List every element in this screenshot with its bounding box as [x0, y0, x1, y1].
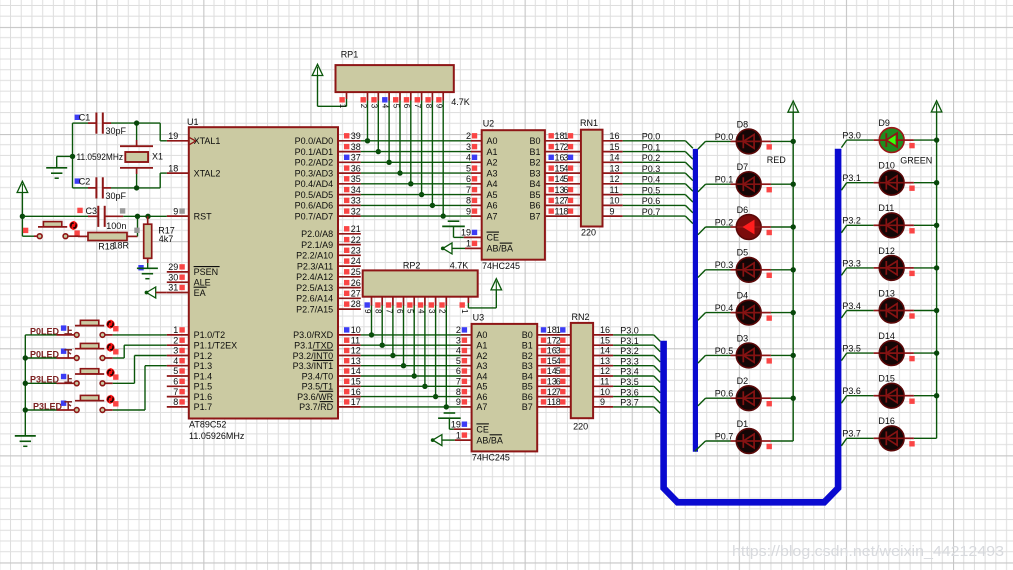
- RP2 pin 5 wire to P3.4: [406, 297, 417, 379]
- LED D15 (green off): [879, 383, 904, 408]
- LED D5 designator label: [737, 248, 749, 258]
- svg-text:1: 1: [460, 309, 469, 314]
- svg-text:AT89C52: AT89C52: [189, 420, 226, 430]
- svg-text:12: 12: [610, 174, 620, 184]
- U2 right pin stubs/numbers to resistor network: [545, 131, 581, 216]
- svg-text:8: 8: [374, 309, 383, 314]
- svg-text:P0.0: P0.0: [715, 132, 734, 142]
- svg-text:P0.6/AD6: P0.6/AD6: [295, 201, 334, 211]
- U3 left pin numbers and squares: [451, 325, 467, 440]
- svg-text:P0.0/AD0: P0.0/AD0: [295, 136, 334, 146]
- net label P3.4 (LED side): [842, 301, 861, 311]
- svg-text:8: 8: [173, 397, 178, 407]
- svg-text:P1.2: P1.2: [194, 351, 213, 361]
- svg-text:A4: A4: [476, 371, 487, 381]
- svg-text:11: 11: [351, 335, 360, 345]
- svg-text:6: 6: [563, 185, 568, 195]
- svg-text:4.7K: 4.7K: [451, 97, 470, 107]
- wire P0.1: U1 pin 38 to U2 pin 3: [361, 151, 482, 153]
- svg-text:38: 38: [351, 142, 361, 152]
- svg-text:5: 5: [391, 104, 400, 109]
- svg-text:9: 9: [600, 397, 605, 407]
- wire net P3.4: RN2 pin 12 to bus: [593, 366, 660, 382]
- LED D6 (lit red): [736, 215, 761, 240]
- X1 labels: [77, 151, 164, 162]
- wire P3.1: U1 pin 11 to U3 pin 3: [361, 344, 472, 346]
- svg-text:13: 13: [610, 163, 620, 173]
- svg-text:23: 23: [351, 246, 361, 256]
- svg-text:P3.0/RXD: P3.0/RXD: [293, 330, 334, 340]
- svg-text:6: 6: [173, 377, 178, 387]
- LED D4 designator label: [737, 291, 749, 301]
- svg-text:12: 12: [351, 346, 361, 356]
- wire P0.6 bus to LED D2: [698, 398, 737, 406]
- LED D12 (green off): [879, 256, 904, 281]
- LED D16 (green off): [879, 426, 904, 451]
- svg-text:6: 6: [395, 309, 404, 314]
- svg-text:P3.0: P3.0: [842, 131, 861, 141]
- wire P3.2 bus to LED D11: [841, 225, 879, 233]
- U1 left pin name labels: [194, 136, 238, 412]
- RP1 pin 7 wire to P0.5: [413, 92, 424, 197]
- svg-text:EA: EA: [194, 288, 206, 298]
- svg-text:A0: A0: [487, 136, 498, 146]
- wire button1 to P1.0: [106, 334, 167, 336]
- wire XTAL1 net: [73, 120, 167, 140]
- RP2 pin 4 wire to P3.5: [416, 297, 427, 389]
- LED D14 designator label: [878, 331, 895, 341]
- wire VCC to RST node and reset button: [20, 193, 37, 237]
- svg-text:U1: U1: [187, 117, 199, 127]
- svg-text:9: 9: [435, 104, 444, 109]
- svg-text:X1: X1: [152, 151, 163, 161]
- svg-text:P1.5: P1.5: [194, 382, 213, 392]
- svg-text:12: 12: [600, 366, 610, 376]
- LED D11 designator label: [878, 203, 894, 213]
- LED D15 designator label: [878, 374, 895, 384]
- svg-text:19: 19: [451, 419, 461, 429]
- wire LED D12 cathode to common: [904, 268, 937, 276]
- LED D9 (lit green): [879, 128, 904, 153]
- svg-text:16: 16: [351, 387, 361, 397]
- svg-text:D6: D6: [737, 205, 749, 215]
- svg-text:5: 5: [563, 174, 568, 184]
- input arrow at U3 AB/BA pin: [431, 435, 472, 446]
- wire P3.3: U1 pin 13 to U3 pin 5: [361, 365, 472, 367]
- svg-text:6: 6: [402, 104, 411, 109]
- svg-text:P0.5: P0.5: [715, 346, 734, 356]
- wire P3.3 bus to LED D12: [841, 268, 879, 276]
- svg-text:19: 19: [461, 228, 471, 238]
- svg-text:A5: A5: [476, 382, 487, 392]
- svg-text:3: 3: [427, 309, 436, 314]
- svg-text:P3.1: P3.1: [620, 336, 639, 346]
- svg-text:14: 14: [351, 366, 361, 376]
- svg-text:4: 4: [173, 356, 178, 366]
- U2 value label 74HC245: [482, 261, 520, 271]
- power arrow VCC (reset circuit): [17, 181, 28, 192]
- U1 left pin stubs: [167, 141, 189, 407]
- svg-text:A5: A5: [487, 190, 498, 200]
- svg-text:8: 8: [456, 387, 461, 397]
- svg-text:P3.4: P3.4: [620, 367, 639, 377]
- net label P0.1 (LED side): [715, 175, 734, 185]
- svg-text:B7: B7: [529, 211, 540, 221]
- RP2 pin 6 wire to P3.3: [395, 297, 406, 369]
- svg-text:37: 37: [351, 153, 361, 163]
- svg-text:P1.1/T2EX: P1.1/T2EX: [194, 341, 238, 351]
- svg-text:P0.4: P0.4: [715, 303, 734, 313]
- wire reset button to R18: [69, 235, 80, 237]
- svg-text:9: 9: [610, 206, 615, 216]
- svg-text:U3: U3: [473, 312, 485, 322]
- wire LED D1 cathode to common: [761, 441, 793, 449]
- svg-text:P0.2/AD2: P0.2/AD2: [295, 158, 334, 168]
- LED D2 (red off): [736, 386, 761, 411]
- svg-text:D7: D7: [737, 162, 749, 172]
- wire LED D6 cathode to common: [761, 227, 793, 235]
- svg-text:RST: RST: [194, 211, 213, 221]
- RP1 pin 9 wire to P0.7: [435, 92, 446, 219]
- svg-text:30pF: 30pF: [106, 191, 127, 201]
- wire P0.5 bus to LED D3: [698, 355, 737, 363]
- wire LED D3 cathode to common: [761, 355, 793, 363]
- U1 right pin stubs P0/P2/P3: [338, 141, 361, 407]
- svg-text:P2.4/A12: P2.4/A12: [296, 272, 333, 282]
- crystal X1: [120, 140, 153, 174]
- svg-text:U2: U2: [483, 119, 495, 129]
- LED D13 designator label: [878, 288, 895, 298]
- svg-text:P2.7/A15: P2.7/A15: [296, 304, 333, 314]
- wire LED D2 cathode to common: [761, 398, 793, 406]
- LED D14 (green off): [879, 341, 904, 366]
- push button P0LED下: [74, 343, 118, 361]
- svg-text:3: 3: [466, 142, 471, 152]
- C3 labels: [77, 206, 126, 231]
- svg-text:18: 18: [168, 163, 178, 173]
- svg-text:A3: A3: [487, 168, 498, 178]
- svg-text:P3.2: P3.2: [842, 216, 861, 226]
- C2 labels: [75, 176, 127, 201]
- svg-text:A0: A0: [476, 330, 487, 340]
- svg-text:P0.1: P0.1: [642, 142, 661, 152]
- svg-text:39: 39: [351, 131, 361, 141]
- svg-text:A2: A2: [476, 351, 487, 361]
- svg-text:2: 2: [556, 335, 561, 345]
- wire net P3.3: RN2 pin 13 to bus: [593, 356, 660, 372]
- LED D7 (red off): [736, 172, 761, 197]
- wire P3.6: U1 pin 16 to U3 pin 8: [361, 396, 472, 398]
- svg-text:D16: D16: [878, 416, 895, 426]
- svg-text:D1: D1: [737, 419, 749, 429]
- U3 pin name labels: [476, 330, 532, 445]
- svg-text:15: 15: [600, 335, 610, 345]
- svg-text:P0.3/AD3: P0.3/AD3: [295, 168, 334, 178]
- svg-text:B0: B0: [522, 330, 533, 340]
- svg-text:P3.1/TXD: P3.1/TXD: [294, 341, 334, 351]
- LED D3 (red off): [736, 343, 761, 368]
- svg-text:P0.6: P0.6: [642, 196, 661, 206]
- RP1 pin 8 wire to P0.6: [424, 92, 435, 208]
- wire net P3.7: RN2 pin 9 to bus: [593, 397, 660, 413]
- buffer U2 74HC245 body: [482, 130, 545, 260]
- svg-text:B2: B2: [529, 158, 540, 168]
- svg-text:A6: A6: [487, 201, 498, 211]
- net label P0.4 (LED side): [715, 303, 734, 313]
- svg-text:XTAL1: XTAL1: [194, 136, 221, 146]
- LED D4 (red off): [736, 300, 761, 325]
- svg-text:B6: B6: [522, 392, 533, 402]
- svg-text:A4: A4: [487, 179, 498, 189]
- wire XTAL2 net: [73, 173, 167, 190]
- svg-text:13: 13: [351, 356, 361, 366]
- svg-text:XTAL2: XTAL2: [194, 168, 221, 178]
- svg-text:P3.6: P3.6: [620, 387, 639, 397]
- svg-text:P3.0: P3.0: [620, 326, 639, 336]
- svg-text:P1.7: P1.7: [194, 402, 213, 412]
- svg-text:P0.7: P0.7: [642, 207, 661, 217]
- svg-text:B6: B6: [529, 201, 540, 211]
- svg-text:P2.3/A11: P2.3/A11: [297, 261, 333, 271]
- wire net P3.1: RN2 pin 15 to bus: [593, 335, 660, 351]
- RP1 pin 1 to VCC: [318, 76, 347, 109]
- resistor R17 4k7: [144, 216, 152, 263]
- svg-text:P0.1/AD1: P0.1/AD1: [295, 147, 334, 157]
- wire LED D8 cathode to common: [761, 141, 793, 149]
- svg-text:RP2: RP2: [403, 260, 421, 270]
- svg-text:30pF: 30pF: [106, 126, 127, 136]
- net label P0.6 (LED side): [715, 389, 734, 399]
- RP1 pin 5 wire to P0.3: [391, 92, 402, 176]
- svg-text:3: 3: [563, 153, 568, 163]
- svg-text:17: 17: [351, 397, 361, 407]
- power arrow VCC (left LED rail): [788, 101, 799, 112]
- wire LED common anode rail (right column): [934, 112, 939, 438]
- wire R18 to RST net: [134, 216, 139, 236]
- svg-text:1: 1: [556, 325, 561, 335]
- svg-text:B0: B0: [529, 136, 540, 146]
- svg-text:100n: 100n: [106, 221, 126, 231]
- wire P0.0: U1 pin 39 to U2 pin 2: [361, 140, 482, 142]
- U1 reference label: [187, 117, 199, 127]
- wire LED D16 cathode to common: [904, 438, 937, 446]
- wire net P0.7: RN1 pin 9 to bus: [603, 206, 693, 223]
- svg-text:8: 8: [563, 206, 568, 216]
- wire P0.2: U1 pin 37 to U2 pin 4: [361, 161, 482, 163]
- svg-text:34: 34: [351, 185, 361, 195]
- svg-text:A1: A1: [487, 147, 498, 157]
- svg-text:P0.2: P0.2: [715, 217, 734, 227]
- button label P0LED: [30, 349, 72, 360]
- svg-text:14: 14: [600, 346, 610, 356]
- svg-text:1: 1: [173, 325, 178, 335]
- svg-text:B4: B4: [529, 179, 540, 189]
- svg-text:P0.1: P0.1: [715, 175, 734, 185]
- svg-text:RP1: RP1: [341, 50, 359, 60]
- LED D9 designator label: [878, 118, 890, 128]
- push button P0LED上: [74, 320, 118, 338]
- wire LED D13 cathode to common: [904, 311, 937, 319]
- wire P3.0: U1 pin 10 to U3 pin 2: [361, 334, 472, 336]
- RP1 pin 4 wire to P0.2: [381, 92, 392, 165]
- svg-text:21: 21: [351, 224, 361, 234]
- svg-text:P2.5/A13: P2.5/A13: [296, 283, 333, 293]
- svg-text:9: 9: [456, 397, 461, 407]
- svg-text:AB/BA: AB/BA: [487, 244, 514, 254]
- svg-text:2: 2: [359, 104, 368, 109]
- wire P3.4 bus to LED D13: [841, 311, 879, 319]
- svg-text:4: 4: [416, 309, 425, 314]
- svg-text:15: 15: [351, 377, 361, 387]
- RP1 pin 3 wire to P0.1: [370, 92, 381, 154]
- svg-text:3: 3: [173, 346, 178, 356]
- svg-text:P3.7/RD: P3.7/RD: [299, 402, 334, 412]
- svg-text:D8: D8: [737, 119, 749, 129]
- wire net P3.2: RN2 pin 14 to bus: [593, 346, 660, 362]
- svg-text:11.0592MHz: 11.0592MHz: [77, 152, 124, 162]
- svg-text:5: 5: [406, 309, 415, 314]
- svg-text:P1.4: P1.4: [194, 371, 213, 381]
- U1 value labels AT89C52 / 11.05926MHz: [189, 420, 245, 441]
- label GREEN: [900, 156, 932, 166]
- capacitor C2 30pF: [88, 177, 111, 198]
- svg-text:220: 220: [581, 227, 596, 237]
- wire P0.7: U1 pin 32 to U2 pin 9: [361, 215, 482, 217]
- ground (inverted) at U2 CE pin: [442, 221, 482, 237]
- RP2 pin 9 wire to P3.0: [363, 297, 374, 338]
- wire net P3.0: RN2 pin 16 to bus: [593, 325, 660, 341]
- wire LED D14 cathode to common: [904, 353, 937, 361]
- net label P3.5 (LED side): [842, 344, 861, 354]
- svg-text:CE: CE: [476, 425, 489, 435]
- svg-text:35: 35: [351, 174, 361, 184]
- bus (P0 nets, vertical): [693, 149, 698, 452]
- wire LED D7 cathode to common: [761, 184, 793, 192]
- svg-text:9: 9: [466, 206, 471, 216]
- svg-text:2: 2: [173, 335, 178, 345]
- wire P0.0 bus to LED D8: [698, 141, 737, 149]
- svg-text:RED: RED: [767, 155, 787, 165]
- wire net P0.3: RN1 pin 13 to bus: [603, 163, 693, 180]
- svg-text:1: 1: [466, 239, 471, 249]
- label RED: [767, 155, 787, 165]
- svg-text:11.05926MHz: 11.05926MHz: [189, 431, 245, 441]
- svg-text:P3.4/T0: P3.4/T0: [302, 371, 334, 381]
- svg-text:8: 8: [424, 104, 433, 109]
- svg-text:14: 14: [610, 153, 620, 163]
- input arrow at U2 AB/BA pin: [441, 243, 482, 254]
- RP1 pin 6 wire to P0.4: [402, 92, 413, 186]
- svg-text:4: 4: [381, 104, 390, 109]
- RP2 pin 8 wire to P3.1: [374, 297, 385, 348]
- svg-text:7: 7: [556, 387, 561, 397]
- svg-text:P1.6: P1.6: [194, 392, 213, 402]
- RP2 labels RP2 / 4.7K: [403, 260, 468, 270]
- ground (R17): [137, 268, 158, 278]
- U1 right pin name labels: [293, 136, 334, 412]
- svg-text:30: 30: [168, 272, 178, 282]
- svg-text:4: 4: [556, 356, 561, 366]
- svg-text:33: 33: [351, 196, 361, 206]
- wire P3.1 bus to LED D10: [841, 183, 879, 191]
- svg-text:3: 3: [370, 104, 379, 109]
- svg-text:16: 16: [610, 131, 620, 141]
- svg-text:2: 2: [438, 309, 447, 314]
- net label P0.7 (LED side): [715, 431, 734, 441]
- svg-text:ALE: ALE: [194, 278, 211, 288]
- U1 right pin numbers and state squares: [344, 131, 361, 407]
- net label P0.2 (LED side): [715, 217, 734, 227]
- svg-text:P3.6: P3.6: [842, 386, 861, 396]
- svg-text:P0.4: P0.4: [642, 175, 661, 185]
- svg-text:26: 26: [351, 278, 361, 288]
- svg-text:D5: D5: [737, 248, 749, 258]
- svg-text:B3: B3: [522, 361, 533, 371]
- svg-text:D9: D9: [878, 118, 890, 128]
- svg-text:P1.0/T2: P1.0/T2: [194, 330, 226, 340]
- input arrow at EA pin: [145, 287, 167, 298]
- push button (reset): [37, 221, 80, 239]
- U3 value label 74HC245: [472, 453, 510, 463]
- wire LED common anode rail (left column): [791, 112, 796, 441]
- RN2 labels RN2 / 220: [572, 312, 590, 431]
- net label P3.0 (LED side): [842, 131, 861, 141]
- svg-text:RN2: RN2: [572, 312, 590, 322]
- svg-text:C2: C2: [79, 176, 91, 186]
- LED D7 designator label: [737, 162, 749, 172]
- RP2 pin 7 wire to P3.2: [384, 297, 395, 358]
- svg-text:GREEN: GREEN: [900, 156, 932, 166]
- resistor network RN2 body: [571, 323, 593, 418]
- wire P0.7 bus to LED D1: [695, 441, 737, 451]
- U2 reference label: [483, 119, 495, 129]
- wire button3 to P1.2: [106, 356, 167, 384]
- wire LED D11 cathode to common: [904, 225, 937, 233]
- power arrow VCC (right LED rail): [931, 101, 942, 112]
- net label P3.3 (LED side): [842, 258, 861, 268]
- net label P3.7 (LED side): [842, 429, 861, 439]
- svg-text:B1: B1: [529, 147, 540, 157]
- svg-text:5: 5: [556, 366, 561, 376]
- svg-text:D15: D15: [878, 374, 895, 384]
- wire LED D15 cathode to common: [904, 396, 937, 404]
- RP2 pin 3 wire to P3.6: [427, 297, 438, 399]
- LED D12 designator label: [878, 246, 895, 256]
- svg-text:10: 10: [610, 196, 620, 206]
- wire P0.2 bus to LED D6: [698, 227, 737, 235]
- LED D2 designator label: [737, 376, 749, 386]
- wire P0.3: U1 pin 36 to U2 pin 5: [361, 172, 482, 174]
- svg-text:1: 1: [338, 104, 347, 109]
- svg-text:A7: A7: [476, 402, 487, 412]
- svg-text:31: 31: [168, 283, 178, 293]
- svg-text:P0.3: P0.3: [715, 260, 734, 270]
- push button P3LED下: [74, 395, 118, 413]
- wire net P0.6: RN1 pin 10 to bus: [603, 196, 693, 213]
- LED D1 designator label: [737, 419, 749, 429]
- svg-text:A7: A7: [487, 211, 498, 221]
- LED D3 designator label: [737, 333, 749, 343]
- svg-text:D10: D10: [878, 161, 895, 171]
- svg-text:P2.0/A8: P2.0/A8: [301, 229, 333, 239]
- LED D16 designator label: [878, 416, 895, 426]
- svg-text:7: 7: [456, 377, 461, 387]
- U3 right pin stubs/numbers to resistor network: [537, 325, 573, 407]
- svg-text:D2: D2: [737, 376, 749, 386]
- wire P3.5 bus to LED D14: [841, 353, 879, 361]
- buffer U3 74HC245 body: [472, 324, 538, 452]
- svg-text:P3.5: P3.5: [620, 377, 639, 387]
